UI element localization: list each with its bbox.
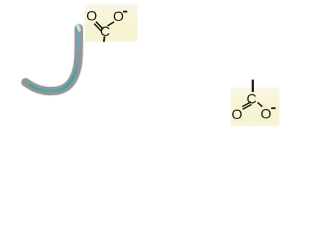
bond single C-O- (box 2) <box>258 102 263 106</box>
wire: molecule backbone tube outer soft edge <box>26 28 79 91</box>
bond double C=O line 1 (box 2) <box>243 105 252 110</box>
svg-text:O: O <box>231 106 242 122</box>
bond double C=O line 2 (box 1) <box>94 24 101 32</box>
bond double C=O line 1 (box 1) <box>96 22 103 30</box>
charge minus (box 1) <box>123 11 127 13</box>
node: highlight box 2 (ionized carboxyl group, bottom right) <box>231 87 280 126</box>
bond stub below C (box 1) <box>103 36 106 42</box>
bond stub above C (box 2) <box>252 80 254 92</box>
bond single C-O- (box 1) <box>108 22 115 26</box>
svg-text:O: O <box>260 106 271 122</box>
node: highlight box 1 (ionized carboxyl group, top) <box>84 4 137 42</box>
svg-text:O: O <box>113 8 124 24</box>
wire: molecule backbone tube (blue-teal highlight line) <box>30 28 80 92</box>
wire: molecule backbone tube (gray body) <box>26 28 79 91</box>
svg-text:O: O <box>86 8 97 24</box>
wire: tube tip highlight <box>78 26 80 30</box>
bond double C=O line 2 (box 2) <box>242 102 251 107</box>
charge minus (box 2) <box>271 107 275 109</box>
